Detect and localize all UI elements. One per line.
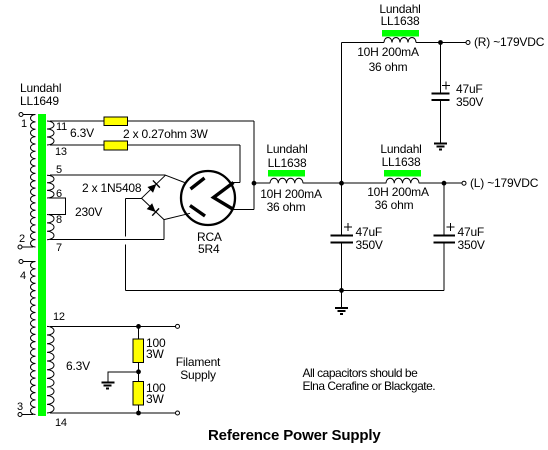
wire rail1 top B+ — [342, 42, 467, 44]
svg-text:(R) ~179VDC: (R) ~179VDC — [474, 35, 545, 49]
wire cap3 top lead — [443, 183, 445, 234]
svg-text:Lundahl: Lundahl — [266, 142, 307, 156]
transformer secondary 5-6 — [47, 175, 54, 198]
wire cap2 top lead — [341, 183, 343, 234]
capacitor C2 plates — [331, 236, 354, 243]
choke L3 coil — [386, 178, 419, 183]
capacitor C1 plates — [432, 94, 450, 101]
svg-text:3: 3 — [17, 401, 23, 413]
wire R1 right to riser — [128, 120, 255, 122]
wire riser x240 — [239, 145, 241, 183]
diode D2 line — [142, 198, 165, 219]
ground filament centre tap — [102, 383, 115, 389]
junction dot rail2 right — [442, 181, 447, 186]
wire R3 to R4 through centre tap — [138, 363, 140, 383]
resistor R2 0.27ohm — [104, 141, 128, 150]
svg-text:Lundahl: Lundahl — [380, 142, 421, 156]
svg-text:1: 1 — [21, 118, 27, 130]
terminal pin3 — [18, 413, 22, 417]
wire R4 bottom lead — [138, 405, 140, 413]
svg-text:Reference Power Supply: Reference Power Supply — [208, 427, 381, 444]
wire cap1 bottom lead to ground — [440, 101, 442, 144]
ground for C1 — [434, 144, 447, 150]
svg-text:Filament: Filament — [176, 355, 221, 369]
svg-text:All capacitors should be: All capacitors should be — [303, 366, 419, 380]
junction dot rail2 left — [252, 181, 257, 186]
wire HV center jog pins 6-8 — [49, 198, 66, 215]
wire rail2 left segment — [254, 182, 270, 184]
terminal R output — [466, 41, 470, 45]
resistor R1 0.27ohm — [104, 117, 128, 126]
svg-text:230V: 230V — [75, 205, 102, 219]
wire pin4 to primary — [23, 261, 35, 263]
resistor R4 100 3W — [133, 382, 144, 406]
tube filament chevron — [214, 183, 234, 210]
svg-text:350V: 350V — [356, 238, 383, 252]
wire pin2 to primary — [22, 246, 33, 248]
svg-text:LL1638: LL1638 — [382, 155, 421, 169]
tube V1 envelope — [181, 171, 235, 225]
junction dot rail1 — [438, 40, 443, 45]
wire centre tap to ground — [108, 372, 139, 382]
tube plate 2 — [190, 206, 205, 217]
svg-text:36 ohm: 36 ohm — [375, 198, 414, 212]
terminal pin2 — [18, 245, 22, 249]
wire pin11 to R1 — [50, 120, 104, 122]
junction dot ground rail — [339, 288, 344, 293]
wire rail2 right segment — [419, 182, 462, 184]
wire pin14 filament bottom — [50, 412, 176, 414]
svg-text:47uF: 47uF — [356, 225, 383, 239]
svg-text:(L) ~179VDC: (L) ~179VDC — [470, 176, 539, 190]
choke L3 core bar — [384, 170, 421, 177]
wire node B to plate2 — [164, 213, 190, 219]
wire drop x125.5 lower segment after crossover gap — [125, 245, 127, 291]
svg-text:2: 2 — [19, 233, 25, 245]
svg-text:5: 5 — [56, 164, 62, 176]
svg-text:13: 13 — [55, 146, 67, 158]
wire ground stub mid rail — [341, 290, 343, 307]
wire pin1 to primary — [23, 114, 35, 116]
svg-text:Elna Cerafine or Blackgate.: Elna Cerafine or Blackgate. — [303, 379, 436, 393]
diode D2 symbol — [146, 203, 159, 216]
tube plate 1 — [191, 178, 205, 189]
svg-text:11: 11 — [56, 121, 67, 133]
wire riser x254 filament B+ — [253, 121, 255, 210]
plus sign C2 — [344, 223, 352, 231]
svg-text:47uF: 47uF — [458, 225, 485, 239]
svg-text:2 x 0.27ohm 3W: 2 x 0.27ohm 3W — [123, 127, 208, 141]
choke L2 core bar — [268, 170, 305, 177]
wire node A to plate1 — [166, 175, 185, 182]
wire filament top arm to riser — [230, 182, 240, 184]
junction dot rail2 mid — [339, 181, 344, 186]
wire filament bottom arm to riser — [233, 209, 254, 211]
svg-text:Lundahl: Lundahl — [20, 81, 61, 95]
wire bottom ground rail — [126, 289, 445, 291]
svg-text:5R4: 5R4 — [198, 242, 220, 256]
plus sign C1 — [442, 82, 450, 90]
terminal pin4 — [19, 260, 23, 264]
diode D1 symbol — [147, 180, 160, 193]
wire cap2 bottom lead — [341, 243, 343, 290]
resistor R3 100 3W — [133, 339, 144, 363]
choke L1 coil — [384, 38, 416, 43]
svg-text:8: 8 — [56, 214, 62, 226]
transformer secondary 8-7 — [47, 215, 54, 240]
transformer primary winding 1-2 — [30, 115, 35, 248]
svg-text:3W: 3W — [146, 392, 164, 406]
junction dot filament top — [136, 324, 141, 329]
junction dot filament bottom — [136, 411, 141, 416]
transformer primary winding 4-3 — [30, 262, 35, 415]
svg-text:6.3V: 6.3V — [66, 359, 90, 373]
svg-text:350V: 350V — [458, 238, 485, 252]
transformer T1 core bar — [38, 114, 46, 416]
svg-text:10H 200mA: 10H 200mA — [367, 185, 429, 199]
wire diode common to left — [126, 197, 142, 199]
svg-text:6: 6 — [56, 188, 62, 200]
svg-text:10H 200mA: 10H 200mA — [357, 45, 419, 59]
svg-text:2 x 1N5408: 2 x 1N5408 — [82, 181, 142, 195]
wire pin5 HV top — [50, 174, 166, 176]
svg-text:14: 14 — [55, 417, 67, 429]
transformer secondary 11-13 — [47, 121, 54, 145]
terminal L output — [462, 181, 466, 185]
svg-text:350V: 350V — [456, 95, 483, 109]
wire pin7 HV bottom — [50, 239, 164, 241]
terminal filament bottom — [176, 411, 180, 415]
wire cap1 top lead — [440, 43, 442, 93]
wire riser choke1 to rail2 — [341, 43, 343, 184]
wire pin13 to R2 — [50, 144, 104, 146]
wire pin12 filament top — [50, 325, 176, 327]
svg-text:10H 200mA: 10H 200mA — [260, 187, 322, 201]
svg-text:12: 12 — [53, 311, 65, 323]
wire pin3 to primary — [22, 414, 33, 416]
svg-text:LL1638: LL1638 — [381, 14, 420, 28]
svg-text:47uF: 47uF — [456, 82, 483, 96]
junction dot filament centre — [136, 369, 141, 374]
ground main rail — [335, 308, 348, 314]
wire R3 top lead — [138, 326, 140, 339]
wire rail2 mid segment — [303, 182, 386, 184]
svg-text:LL1638: LL1638 — [268, 156, 307, 170]
wire drop x125.5 upper segment — [125, 198, 127, 236]
svg-text:3W: 3W — [146, 347, 164, 361]
terminal pin1 — [19, 113, 23, 117]
capacitor C3 plates — [434, 236, 456, 243]
choke L2 coil — [270, 178, 303, 183]
svg-text:6.3V: 6.3V — [70, 126, 94, 140]
svg-text:36 ohm: 36 ohm — [267, 200, 306, 214]
svg-text:4: 4 — [20, 270, 26, 282]
wire cap3 bottom lead — [443, 243, 445, 290]
plus sign C3 — [447, 223, 455, 231]
svg-text:36 ohm: 36 ohm — [369, 60, 408, 74]
svg-text:Supply: Supply — [180, 368, 216, 382]
svg-text:7: 7 — [56, 242, 62, 254]
terminal filament top — [176, 324, 180, 328]
svg-text:LL1649: LL1649 — [20, 94, 59, 108]
transformer secondary 12-14 — [47, 326, 54, 413]
wire pin7 riser to node B — [163, 220, 165, 240]
diode D1 line — [142, 175, 166, 198]
choke L1 core bar — [382, 30, 419, 37]
wire R2 right to riser x240 — [128, 144, 241, 146]
